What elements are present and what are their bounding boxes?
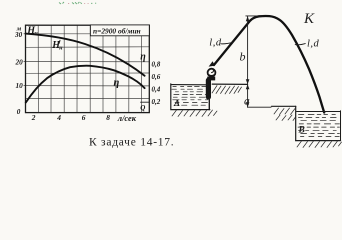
pipe rising to crest and down to tank B xyxy=(214,16,324,113)
tank A water dashes xyxy=(172,87,208,106)
svg-text:l,d: l,d xyxy=(307,38,320,49)
pump circle xyxy=(208,69,216,77)
svg-text:0,8: 0,8 xyxy=(152,61,161,69)
dimension vertical line xyxy=(247,16,249,107)
tank B water surface xyxy=(297,111,341,113)
curve eta xyxy=(26,66,145,103)
svg-text:К задаче 14-17.: К задаче 14-17. xyxy=(89,137,174,149)
svg-text:0,2: 0,2 xyxy=(152,98,161,106)
svg-text:η: η xyxy=(114,78,120,89)
svg-text:0,6: 0,6 xyxy=(152,73,161,81)
faint green print bleed marks top xyxy=(59,2,96,4)
hatch under tank B ledge xyxy=(274,108,296,121)
svg-text:л/сек: л/сек xyxy=(117,114,137,123)
Q box line xyxy=(141,101,150,103)
gridlines horizontal xyxy=(24,34,149,99)
svg-text:2: 2 xyxy=(31,113,36,122)
gridlines vertical xyxy=(38,25,141,112)
n=2900 box xyxy=(90,25,149,36)
tank B water dashes xyxy=(298,114,340,136)
svg-text:н: н xyxy=(59,45,63,52)
chart frame xyxy=(26,25,150,112)
pump volute curl xyxy=(209,70,214,76)
svg-text:8: 8 xyxy=(106,113,110,122)
svg-text:l,d: l,d xyxy=(209,38,222,49)
tank B ground ledge xyxy=(272,105,296,107)
bottom reference tick xyxy=(248,106,271,108)
hatch under tank B bottom xyxy=(297,141,342,148)
hatch under tank A bottom xyxy=(172,110,217,117)
svg-text:К: К xyxy=(303,11,315,27)
svg-text:30: 30 xyxy=(14,31,23,39)
tank A right wall with suction pipe (thick bar) xyxy=(206,80,211,97)
svg-text:10: 10 xyxy=(16,82,24,90)
tank B bottom xyxy=(296,140,341,142)
svg-text:6: 6 xyxy=(82,113,86,122)
svg-text:b: b xyxy=(240,50,246,64)
svg-text:Q: Q xyxy=(140,104,145,112)
svg-text:n=2900 об/мин: n=2900 об/мин xyxy=(93,26,141,35)
pump outlet arrow xyxy=(209,61,215,66)
svg-text:A: A xyxy=(173,98,180,108)
ground hatch right of tank A wall xyxy=(212,86,242,95)
svg-text:В: В xyxy=(298,126,305,136)
svg-text:η: η xyxy=(140,52,146,63)
svg-text:a: a xyxy=(244,96,250,108)
tank A water surface xyxy=(171,84,207,86)
svg-text:20: 20 xyxy=(15,59,24,67)
tank A outline xyxy=(171,84,210,110)
svg-text:н: н xyxy=(34,30,38,37)
tank B right wall xyxy=(340,111,342,141)
svg-text:4: 4 xyxy=(56,113,61,122)
dimension arrows xyxy=(246,16,250,21)
top reference tick xyxy=(246,15,263,17)
pump base block xyxy=(207,77,215,81)
svg-text:0: 0 xyxy=(17,108,21,116)
tank B left wall xyxy=(295,106,297,140)
ground line right of pump xyxy=(212,83,247,85)
svg-text:0,4: 0,4 xyxy=(152,86,161,94)
curve H xyxy=(26,34,145,76)
